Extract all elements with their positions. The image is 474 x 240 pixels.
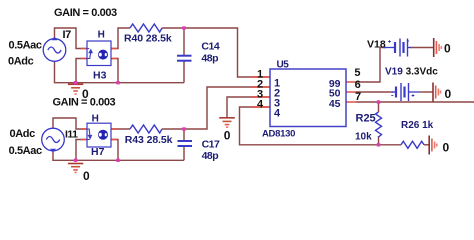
svg-text:H: H — [92, 114, 99, 125]
svg-text:V18: V18 — [367, 38, 386, 50]
svg-text:I7: I7 — [63, 29, 72, 41]
svg-text:U5: U5 — [277, 60, 290, 71]
svg-text:0: 0 — [444, 42, 451, 56]
svg-text:4: 4 — [257, 99, 264, 111]
svg-text:H3: H3 — [93, 70, 107, 82]
svg-text:6: 6 — [355, 79, 361, 91]
svg-text:0.5Aac: 0.5Aac — [9, 145, 42, 157]
svg-text:0: 0 — [83, 169, 90, 183]
svg-text:H: H — [98, 29, 105, 40]
svg-text:0: 0 — [443, 141, 450, 155]
svg-text:45: 45 — [329, 98, 341, 110]
svg-text:0: 0 — [445, 87, 452, 101]
svg-text:0Adc: 0Adc — [8, 56, 34, 68]
svg-text:R40 28.5k: R40 28.5k — [124, 32, 172, 44]
svg-text:0: 0 — [224, 129, 231, 143]
svg-text:10k: 10k — [355, 132, 372, 143]
svg-text:R26 1k: R26 1k — [401, 120, 434, 131]
svg-text:4: 4 — [274, 108, 281, 120]
svg-text:C14: C14 — [201, 41, 219, 53]
svg-text:I11: I11 — [65, 128, 78, 140]
svg-text:7: 7 — [355, 91, 361, 103]
svg-text:H7: H7 — [91, 146, 105, 158]
svg-text:C17: C17 — [202, 139, 220, 151]
svg-text:0Adc: 0Adc — [10, 128, 36, 140]
svg-text:AD8130: AD8130 — [262, 129, 295, 140]
svg-text:48p: 48p — [202, 150, 219, 162]
svg-text:0.5Aac: 0.5Aac — [9, 40, 42, 52]
svg-text:R43 28.5k: R43 28.5k — [125, 134, 173, 146]
svg-text:5: 5 — [354, 67, 360, 79]
svg-text:GAIN = 0.003: GAIN = 0.003 — [54, 7, 117, 19]
svg-text:0: 0 — [82, 87, 89, 101]
svg-text:V19 3.3Vdc: V19 3.3Vdc — [385, 66, 438, 77]
svg-text:R25: R25 — [356, 113, 376, 125]
svg-text:48p: 48p — [201, 52, 218, 64]
